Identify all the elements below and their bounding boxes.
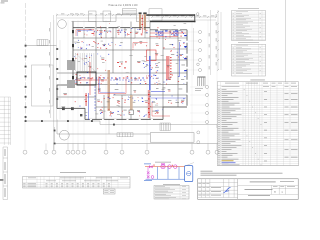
fence posts <box>25 45 115 126</box>
bottom dimension ticks <box>46 144 217 151</box>
blue line lower <box>151 91 165 93</box>
gray micro texts <box>74 23 186 115</box>
canopy dark bar upper <box>146 14 195 16</box>
red annotation speckles <box>75 23 186 116</box>
balcony with railing <box>122 9 136 14</box>
dark walled room <box>77 72 96 85</box>
riser red dots <box>142 18 143 25</box>
right dimension ticks <box>217 11 219 71</box>
stair tower top right-wing <box>149 9 162 21</box>
schematic left drop <box>147 167 149 180</box>
schematic red tees <box>154 165 173 166</box>
meter M2 <box>174 165 178 169</box>
schematic risers blue <box>158 167 180 180</box>
blue dashed riser <box>94 86 96 111</box>
schematic supply line red <box>145 166 185 168</box>
schematic legend title <box>163 183 180 186</box>
outdoor steps block <box>160 123 170 131</box>
steps bar on terrace <box>117 133 133 137</box>
red dots column <box>170 57 171 78</box>
room labels red area values <box>64 31 184 114</box>
red heating loops <box>76 30 170 117</box>
site outbuilding rectangle <box>32 65 54 106</box>
valves left leg <box>147 172 150 175</box>
notes under table <box>201 171 283 176</box>
blue pipe right wing <box>179 42 181 77</box>
tank leader <box>186 163 194 166</box>
title block inner lines <box>198 179 299 200</box>
pink wall strip <box>148 90 150 118</box>
meter M1 <box>168 165 172 169</box>
expansion tank <box>185 166 193 182</box>
title block texts <box>198 181 295 196</box>
interior walls vertical <box>96 22 178 120</box>
interior walls horizontal <box>57 38 187 107</box>
sheet corner mark top-left <box>1 1 9 4</box>
red room outline <box>147 50 157 61</box>
tan shaft strip 1 <box>108 70 111 111</box>
left margin approval table <box>0 97 11 145</box>
left dimension texts <box>48 28 51 113</box>
blue heating loops <box>77 31 125 93</box>
site fence bottom <box>26 120 101 122</box>
schematic title <box>155 161 171 164</box>
corridor pipe chain <box>76 77 148 80</box>
sheet frame right line <box>285 0 287 82</box>
title block frame <box>198 179 299 200</box>
legend table 1 <box>232 11 266 41</box>
site fence top line <box>26 45 57 47</box>
building outer thin top line <box>72 14 151 21</box>
axis grid lines horizontal right <box>188 32 205 122</box>
blue annotation speckles <box>74 28 186 117</box>
left margin mark <box>0 179 4 180</box>
big circle pool <box>59 130 69 140</box>
staircase <box>75 53 95 71</box>
svg-text:План на отм. 0,000 М 1:100: План на отм. 0,000 М 1:100 <box>108 5 138 7</box>
signature blue <box>224 188 231 193</box>
wall piers left <box>72 30 74 79</box>
canopy end connector <box>194 14 196 22</box>
right wing north wall <box>150 29 187 31</box>
left dimension lines <box>51 15 54 150</box>
bottom walkway line <box>55 143 218 145</box>
site fence axis vertical <box>25 3 27 121</box>
equipment table title <box>250 79 265 82</box>
pink cluster <box>151 176 154 179</box>
veranda columns <box>56 48 58 100</box>
equipment table <box>217 82 298 166</box>
tan shaft strip 2 <box>130 95 133 113</box>
room labels <box>62 30 186 113</box>
red cluster mid <box>117 62 127 69</box>
hatched pier 2 <box>67 80 75 88</box>
terrace lower line <box>57 133 150 135</box>
chimney shafts twin <box>139 13 141 30</box>
radiator detail label <box>195 88 203 91</box>
top dimension ticks <box>56 14 217 18</box>
hatched pier 1 <box>67 60 75 70</box>
veranda outer line <box>56 14 58 120</box>
radiators right wall <box>184 35 186 71</box>
top band partitions <box>84 28 170 39</box>
pump P1 <box>161 164 165 168</box>
svg-text:П: П <box>274 191 276 194</box>
radiators top wall <box>155 30 178 31</box>
schematic return line blue <box>146 178 185 180</box>
red hatched wall strip <box>166 56 170 80</box>
top dimension texts <box>61 14 214 17</box>
top dimension lines <box>57 15 216 20</box>
toilet square <box>129 110 133 115</box>
circle feature top-left <box>58 20 67 29</box>
bottom spec table <box>23 177 131 189</box>
right dimension texts <box>209 14 217 69</box>
legend table 2 title <box>238 41 259 44</box>
blue furniture squares <box>159 31 179 35</box>
mini table below <box>103 189 115 194</box>
equipment table header greek <box>222 83 298 87</box>
top porch rects <box>89 11 111 22</box>
chimney caps dark <box>139 12 142 14</box>
red pipe left wing <box>89 62 91 95</box>
valve V1 <box>149 166 152 168</box>
heating pipes blue <box>110 80 186 98</box>
left edge vertical stamp <box>3 147 8 200</box>
building outer walls <box>57 22 187 120</box>
steps symbol on fence <box>37 40 48 46</box>
schematic labels blue <box>144 164 152 181</box>
blue wall strip <box>149 56 151 90</box>
legend table 1 title <box>238 7 259 10</box>
axis grid lines vertical <box>54 20 217 150</box>
schematic legend table <box>154 186 189 200</box>
bottom wall posts <box>62 107 74 110</box>
blue pipe left bottom <box>87 93 89 120</box>
red line upper right <box>150 36 179 38</box>
canopy dark bar lower <box>150 21 196 23</box>
deck axis bubbles <box>197 131 200 134</box>
right dimension lines <box>194 10 222 75</box>
pink riser left <box>85 93 87 106</box>
legend table 2 <box>232 44 266 76</box>
radiator detail <box>197 77 205 86</box>
heating pipes red <box>75 15 186 80</box>
terrace upper line <box>100 124 217 126</box>
colored bottom rows <box>222 159 234 162</box>
bottom spec table title <box>60 171 86 174</box>
axis bubble top right <box>196 13 199 16</box>
deck rectangle <box>150 133 194 143</box>
axis bubbles right column <box>197 31 209 124</box>
axis bubbles bottom row <box>23 150 219 154</box>
